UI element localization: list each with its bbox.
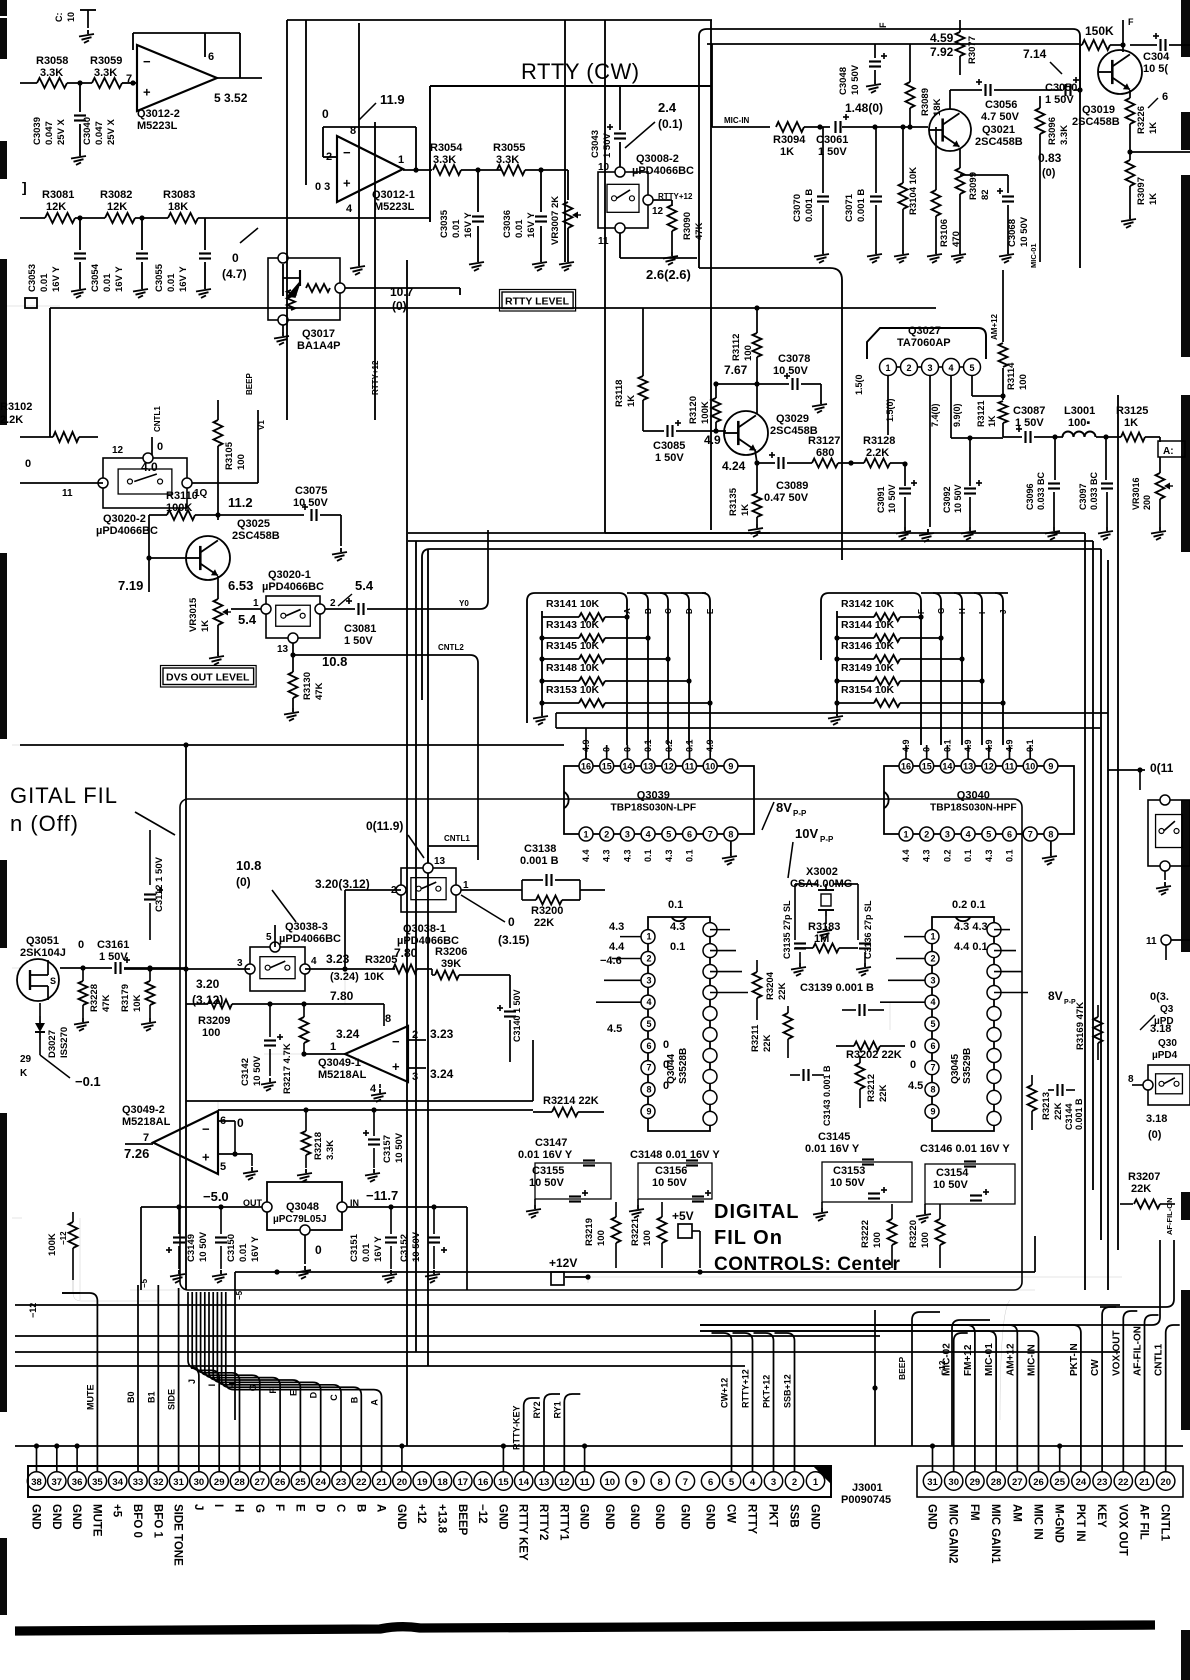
svg-text:0: 0 xyxy=(322,107,329,121)
wire out left xyxy=(141,1206,262,1208)
svg-text:CNTL2: CNTL2 xyxy=(438,643,464,652)
svg-text:Q3051: Q3051 xyxy=(26,935,59,947)
svg-text:Q3020-1: Q3020-1 xyxy=(268,569,311,581)
wire top horizontal y20 xyxy=(287,19,712,21)
connector pin 26 xyxy=(271,1472,289,1490)
svg-text:FM+12: FM+12 xyxy=(963,1344,974,1376)
svg-text:1K: 1K xyxy=(740,504,751,516)
svg-text:100: 100 xyxy=(743,345,754,361)
svg-text:C3061: C3061 xyxy=(816,134,848,146)
svg-text:R3094: R3094 xyxy=(773,134,806,146)
svg-text:0: 0 xyxy=(508,915,515,929)
svg-text:0: 0 xyxy=(25,458,31,470)
svg-text:GND: GND xyxy=(704,1504,716,1530)
svg-text:35: 35 xyxy=(92,1477,103,1488)
svg-text:AF-FIL-ON: AF-FIL-ON xyxy=(1165,1198,1174,1236)
capacitor C3089 0.47 50V xyxy=(777,457,779,469)
svg-text:RTTY KEY: RTTY KEY xyxy=(517,1504,529,1561)
svg-text:R3222: R3222 xyxy=(860,1220,871,1248)
connector pin 1 xyxy=(806,1472,824,1490)
svg-text:GND: GND xyxy=(578,1504,590,1530)
svg-text:16: 16 xyxy=(901,762,911,772)
svg-text:2: 2 xyxy=(930,953,935,963)
svg-text:4.3 4.3: 4.3 4.3 xyxy=(954,921,988,933)
svg-text:R3114: R3114 xyxy=(1006,362,1017,390)
svg-text:R3130: R3130 xyxy=(302,672,313,700)
transistor Q3029 xyxy=(724,411,768,455)
svg-text:16V Y: 16V Y xyxy=(114,266,125,292)
wire 12v to right xyxy=(588,1276,592,1278)
svg-text:C3056: C3056 xyxy=(985,99,1017,111)
svg-text:3: 3 xyxy=(771,1477,776,1488)
ground xyxy=(1053,527,1055,531)
svg-text:7.80: 7.80 xyxy=(330,989,354,1003)
wire q3049-1 pin8 xyxy=(383,1004,385,1026)
feedback wire q3049-2 xyxy=(218,1120,235,1122)
svg-text:+: + xyxy=(343,175,351,190)
svg-text:Y0: Y0 xyxy=(459,599,469,608)
wire net F hook xyxy=(205,1292,280,1472)
ground xyxy=(282,325,284,332)
svg-text:16: 16 xyxy=(478,1477,489,1488)
svg-text:Q3012-1: Q3012-1 xyxy=(372,189,415,201)
svg-text:+5: +5 xyxy=(111,1504,123,1518)
svg-text:100▪: 100▪ xyxy=(1068,417,1090,429)
svg-text:470: 470 xyxy=(951,231,962,247)
svg-text:18K: 18K xyxy=(168,201,188,213)
ground xyxy=(87,30,89,34)
svg-text:S3528B: S3528B xyxy=(678,1048,689,1084)
svg-text:(0): (0) xyxy=(1148,1129,1162,1141)
svg-text:5: 5 xyxy=(986,830,991,840)
wire -12 left vertical xyxy=(79,1218,81,1300)
ground xyxy=(477,258,479,262)
svg-text:8: 8 xyxy=(385,1013,391,1025)
connector pin 19 xyxy=(413,1472,431,1490)
svg-text:150K: 150K xyxy=(1085,24,1114,38)
svg-text:+: + xyxy=(392,1059,400,1074)
wire xyxy=(825,916,827,924)
connector pin 10 xyxy=(601,1472,619,1490)
ground xyxy=(305,1169,307,1173)
svg-text:R3169 47K: R3169 47K xyxy=(1075,1002,1086,1050)
svg-text:SIDE: SIDE xyxy=(167,1389,177,1410)
svg-text:16: 16 xyxy=(581,762,591,772)
svg-text:C: C xyxy=(334,1504,346,1512)
svg-text:0: 0 xyxy=(663,1080,669,1092)
svg-text:47K: 47K xyxy=(314,682,325,700)
wire bus top pair xyxy=(62,1292,80,1294)
svg-text:A: A xyxy=(623,608,632,614)
wire top left entry xyxy=(19,82,21,84)
svg-text:25V X: 25V X xyxy=(56,118,67,145)
wire xyxy=(305,20,307,185)
svg-text:28: 28 xyxy=(991,1477,1002,1488)
wire -5 rail xyxy=(130,1289,1035,1291)
svg-text:0: 0 xyxy=(663,1039,669,1051)
svg-text:7: 7 xyxy=(708,830,713,840)
wire hook RY1 xyxy=(564,1394,580,1472)
connector pin 22 right xyxy=(1114,1472,1132,1490)
svg-text:3.23: 3.23 xyxy=(430,1027,454,1041)
connector pin 28 right xyxy=(987,1472,1005,1490)
svg-text:2: 2 xyxy=(924,830,929,840)
ground left group xyxy=(541,704,543,712)
wire net B hook xyxy=(222,1292,362,1472)
svg-text:DVS OUT LEVEL: DVS OUT LEVEL xyxy=(166,672,250,684)
svg-text:SSB: SSB xyxy=(788,1504,800,1528)
svg-text:5: 5 xyxy=(266,932,272,943)
ground xyxy=(969,527,971,531)
svg-text:0: 0 xyxy=(663,1059,669,1071)
svg-text:(0.1): (0.1) xyxy=(658,117,683,131)
wire left rail xyxy=(541,611,543,704)
wire hook CW+12 xyxy=(712,1333,732,1472)
ground xyxy=(534,1199,536,1205)
svg-text:C3087: C3087 xyxy=(1013,405,1045,417)
svg-text:RY2: RY2 xyxy=(532,1401,542,1418)
capacitor C3085 1 50V xyxy=(666,425,668,437)
connector pin 29 right xyxy=(966,1472,984,1490)
wire hook AM+12 xyxy=(700,1325,1017,1472)
wire hook CNTL1 xyxy=(1166,1325,1180,1472)
ground q3049-1 xyxy=(379,1084,381,1088)
svg-text:VOX OUT: VOX OUT xyxy=(1116,1504,1128,1556)
svg-text:C3154: C3154 xyxy=(936,1167,969,1179)
wire Q3017 to RTTY LEVEL rail xyxy=(345,287,460,289)
svg-text:R3082: R3082 xyxy=(100,189,132,201)
ground xyxy=(821,1202,823,1208)
wire xyxy=(712,126,770,128)
svg-text:20: 20 xyxy=(1160,1477,1171,1488)
svg-text:C3096: C3096 xyxy=(1025,483,1035,510)
scan artifact left edge bars xyxy=(0,0,7,16)
svg-text:PKT+12: PKT+12 xyxy=(762,1375,772,1408)
svg-text:B: B xyxy=(349,1396,359,1403)
svg-text:0.001 B: 0.001 B xyxy=(1074,1098,1084,1130)
svg-text:C3043: C3043 xyxy=(590,130,601,158)
connector pin 23 right xyxy=(1093,1472,1111,1490)
svg-text:1: 1 xyxy=(253,598,259,609)
svg-text:R3214 22K: R3214 22K xyxy=(543,1095,599,1107)
connector pin 24 right xyxy=(1072,1472,1090,1490)
svg-text:−12: −12 xyxy=(59,1231,68,1245)
svg-text:3: 3 xyxy=(625,830,630,840)
svg-text:MIC GAIN1: MIC GAIN1 xyxy=(989,1504,1001,1564)
svg-text:R3219: R3219 xyxy=(584,1218,595,1246)
connector pin 9 xyxy=(626,1472,644,1490)
wire q3049-1 inputs xyxy=(408,1039,426,1041)
svg-text:R3206: R3206 xyxy=(435,946,467,958)
svg-text:R3153 10K: R3153 10K xyxy=(546,684,600,696)
feedback wire op-amp Q3012-2 xyxy=(204,33,206,57)
svg-text:2SC458B: 2SC458B xyxy=(232,530,280,542)
svg-text:AF-FIL-ON: AF-FIL-ON xyxy=(1133,1326,1144,1376)
svg-text:D3027: D3027 xyxy=(47,1030,58,1058)
ground xyxy=(82,1018,84,1022)
feedback wire op-amp Q3012-1 xyxy=(415,127,417,170)
svg-text:0(3.: 0(3. xyxy=(1148,1017,1149,1018)
wire emitter xyxy=(217,576,219,598)
svg-text:4.4 0.1: 4.4 0.1 xyxy=(954,941,988,953)
svg-text:BFO 0: BFO 0 xyxy=(131,1504,143,1538)
svg-text:29: 29 xyxy=(970,1477,981,1488)
svg-text:2: 2 xyxy=(646,953,651,963)
svg-text:R3218: R3218 xyxy=(313,1132,324,1160)
svg-text:Q3038-3: Q3038-3 xyxy=(285,921,328,933)
wire net B xyxy=(640,593,648,745)
svg-text:3: 3 xyxy=(945,830,950,840)
svg-text:14: 14 xyxy=(622,762,632,772)
svg-text:8: 8 xyxy=(930,1085,935,1095)
ground xyxy=(822,250,824,254)
ground xyxy=(304,1266,306,1270)
svg-text:C304: C304 xyxy=(1143,51,1170,63)
svg-text:GND: GND xyxy=(678,1504,690,1530)
svg-text:PKT IN: PKT IN xyxy=(1074,1504,1086,1542)
svg-text:13: 13 xyxy=(434,856,446,867)
connector pin 2 xyxy=(785,1472,803,1490)
nested bus lines top xyxy=(408,532,1085,534)
svg-text:4.5: 4.5 xyxy=(607,1023,622,1035)
connector pin 15 xyxy=(494,1472,512,1490)
svg-text:RTTY: RTTY xyxy=(746,1504,758,1534)
ground xyxy=(433,1270,435,1274)
wire collector xyxy=(756,384,758,414)
svg-text:29: 29 xyxy=(214,1477,225,1488)
connector pin 8 xyxy=(651,1472,669,1490)
svg-text:7.67: 7.67 xyxy=(724,363,748,377)
connector pin 36 xyxy=(68,1472,86,1490)
connector pin 38 xyxy=(27,1472,45,1490)
wire base Q3021 xyxy=(903,126,928,128)
svg-text:47K: 47K xyxy=(101,994,112,1012)
svg-text:C3136 27p SL: C3136 27p SL xyxy=(863,900,873,959)
capacitor C3145 wire xyxy=(889,1002,891,1030)
wire net I hook xyxy=(192,1292,219,1472)
connector pin 5 xyxy=(722,1472,740,1490)
wire MUTE vertical xyxy=(62,1293,97,1472)
svg-text:3.3K: 3.3K xyxy=(94,67,117,79)
svg-text:10 50V: 10 50V xyxy=(830,1177,866,1189)
svg-text:C3081: C3081 xyxy=(344,623,376,635)
wire -5 vertical xyxy=(234,1272,236,1420)
ground xyxy=(340,548,342,552)
ground xyxy=(1164,871,1166,880)
svg-text:CNTL1: CNTL1 xyxy=(1154,1343,1165,1376)
svg-text:VR3016: VR3016 xyxy=(1131,477,1141,510)
svg-text:RY1: RY1 xyxy=(552,1401,562,1418)
svg-text:8: 8 xyxy=(1128,1074,1134,1085)
svg-text:8: 8 xyxy=(646,1085,651,1095)
svg-text:−: − xyxy=(143,54,151,69)
svg-text:C3157: C3157 xyxy=(382,1135,393,1163)
svg-text:9: 9 xyxy=(728,762,733,772)
wire switch1 left xyxy=(345,889,401,891)
svg-text:(3.15): (3.15) xyxy=(498,933,529,947)
svg-text:10.8: 10.8 xyxy=(322,654,347,669)
svg-text:10: 10 xyxy=(705,762,715,772)
wire xyxy=(20,217,45,219)
svg-text:16V Y: 16V Y xyxy=(250,1236,261,1262)
svg-text:P-P: P-P xyxy=(1064,999,1076,1006)
svg-text:R3207: R3207 xyxy=(1128,1171,1160,1183)
connector pin 27 right xyxy=(1008,1472,1026,1490)
svg-text:C3055: C3055 xyxy=(154,263,165,292)
svg-text:TBP18S030N-LPF: TBP18S030N-LPF xyxy=(611,803,697,814)
svg-text:100K: 100K xyxy=(47,1233,58,1256)
svg-text:R3204: R3204 xyxy=(765,971,776,1000)
ground xyxy=(671,252,673,256)
connector pin 11 xyxy=(575,1472,593,1490)
svg-text:8V: 8V xyxy=(1048,989,1063,1003)
vertical wire xyxy=(711,44,713,127)
svg-text:+5V: +5V xyxy=(672,1209,694,1223)
svg-text:AF FIL: AF FIL xyxy=(1138,1504,1150,1540)
svg-text:1.5(0): 1.5(0) xyxy=(885,398,895,422)
svg-text:B0: B0 xyxy=(126,1391,136,1403)
svg-text:C3075: C3075 xyxy=(295,485,327,497)
svg-text:−11.7: −11.7 xyxy=(366,1188,398,1203)
svg-text:10 50V: 10 50V xyxy=(652,1177,688,1189)
svg-text:C3053: C3053 xyxy=(27,264,38,292)
capacitor C3050 wire xyxy=(1064,84,1066,96)
resistor group frame left xyxy=(527,593,627,745)
svg-text:0.01: 0.01 xyxy=(238,1243,249,1262)
wire to op-amp xyxy=(122,82,137,84)
svg-text:10 50V: 10 50V xyxy=(850,64,861,95)
svg-text:MIC-IN: MIC-IN xyxy=(1027,1344,1038,1376)
svg-text:37: 37 xyxy=(52,1477,63,1488)
IC Q3044 S3528B xyxy=(648,917,710,1131)
svg-text:22K: 22K xyxy=(1131,1183,1151,1195)
svg-text:Q3045: Q3045 xyxy=(950,1053,961,1083)
wire pin stub xyxy=(76,1446,78,1472)
svg-text:Q3048: Q3048 xyxy=(286,1201,319,1213)
vertical wire BEEP xyxy=(286,20,288,420)
svg-text:B1: B1 xyxy=(146,1391,156,1403)
svg-text:11.2: 11.2 xyxy=(228,495,253,510)
svg-text:4.3: 4.3 xyxy=(922,849,932,862)
svg-text:3.20(3.12): 3.20(3.12) xyxy=(315,877,370,891)
svg-text:M-GND: M-GND xyxy=(1053,1504,1065,1543)
svg-text:27: 27 xyxy=(255,1477,266,1488)
wire pin4 row xyxy=(950,375,952,438)
svg-text:C3036: C3036 xyxy=(502,210,513,238)
svg-text:−5: −5 xyxy=(140,1278,149,1288)
svg-text:10: 10 xyxy=(66,12,76,22)
wire block left edge xyxy=(605,532,770,534)
wire q3049-1 output xyxy=(304,1053,345,1055)
ground xyxy=(178,1270,180,1274)
capacitor C3049 right xyxy=(1159,39,1161,51)
svg-text:4.3: 4.3 xyxy=(670,921,685,933)
svg-text:4.4: 4.4 xyxy=(609,941,625,953)
connector pin 6 xyxy=(701,1472,719,1490)
svg-text:CNTL1: CNTL1 xyxy=(153,406,162,432)
wire vertical x186 xyxy=(185,745,187,1290)
crystal X3002 xyxy=(818,889,834,891)
svg-text:S: S xyxy=(50,976,56,986)
connector pin 21 xyxy=(372,1472,390,1490)
svg-text:3.3K: 3.3K xyxy=(325,1140,336,1160)
svg-text:F: F xyxy=(917,609,926,614)
svg-text:26: 26 xyxy=(275,1477,286,1488)
svg-text:1: 1 xyxy=(646,932,651,942)
svg-text:M5218AL: M5218AL xyxy=(122,1116,171,1128)
wire left rail entries xyxy=(12,744,22,746)
svg-text:4.3: 4.3 xyxy=(622,849,632,862)
svg-text:0.1: 0.1 xyxy=(668,899,683,911)
svg-text:1K: 1K xyxy=(1148,193,1159,205)
svg-text:0.01: 0.01 xyxy=(102,273,113,292)
svg-text:2.4: 2.4 xyxy=(658,100,677,115)
wire hook PKT-IN xyxy=(700,1325,1081,1472)
svg-text:RTTY-KEY: RTTY-KEY xyxy=(512,1405,522,1450)
svg-text:A: A xyxy=(375,1504,387,1512)
svg-text:R3143 10K: R3143 10K xyxy=(546,619,600,631)
op-amp U Q3049-1 xyxy=(345,1026,408,1082)
svg-text:10 50V: 10 50V xyxy=(198,1231,209,1262)
svg-text:R3120: R3120 xyxy=(688,396,699,424)
connector pin 13 xyxy=(535,1472,553,1490)
svg-text:10 50V: 10 50V xyxy=(1019,216,1030,247)
connector pin 22 xyxy=(352,1472,370,1490)
svg-text:10 50V: 10 50V xyxy=(293,497,329,509)
transistor Q3051 JFET xyxy=(17,959,59,1001)
svg-text:4.5: 4.5 xyxy=(908,1080,923,1092)
svg-text:3: 3 xyxy=(646,975,651,985)
connector pin 30 xyxy=(190,1472,208,1490)
svg-text:R3105: R3105 xyxy=(224,441,235,470)
wire pins to nets right xyxy=(905,745,907,759)
svg-text:E: E xyxy=(293,1504,305,1512)
svg-text:R3099: R3099 xyxy=(968,172,979,200)
svg-text:C3112 1 50V: C3112 1 50V xyxy=(154,856,165,912)
capacitor C3061 + xyxy=(834,121,836,133)
wire pin stub xyxy=(56,1446,58,1472)
svg-text:13: 13 xyxy=(277,644,289,655)
svg-text:3: 3 xyxy=(412,1071,418,1083)
svg-text:C3035: C3035 xyxy=(439,209,450,238)
ground xyxy=(874,80,876,84)
connector pin 31 right xyxy=(923,1472,941,1490)
svg-text:SSB+12: SSB+12 xyxy=(783,1374,793,1408)
svg-text:12: 12 xyxy=(559,1477,570,1488)
svg-text:CW: CW xyxy=(1090,1359,1101,1376)
svg-text:P-P: P-P xyxy=(793,809,807,818)
svg-text:9: 9 xyxy=(1048,762,1053,772)
svg-text:9: 9 xyxy=(930,1106,935,1116)
wire hook RTTY-KEY xyxy=(524,1398,540,1472)
IC Q3045 S3529B xyxy=(932,917,994,1131)
wire mic enclosure xyxy=(699,29,1080,268)
svg-text:6: 6 xyxy=(687,830,692,840)
svg-text:10K: 10K xyxy=(132,994,143,1012)
svg-text:BEEP: BEEP xyxy=(897,1357,907,1380)
ground xyxy=(820,400,822,404)
svg-text:15: 15 xyxy=(922,762,932,772)
svg-text:4: 4 xyxy=(750,1477,756,1488)
svg-text:4: 4 xyxy=(346,203,353,215)
svg-text:E: E xyxy=(706,608,715,614)
svg-text:0: 0 xyxy=(78,939,84,951)
svg-text:82: 82 xyxy=(980,189,991,200)
svg-text:−: − xyxy=(343,145,351,160)
svg-text:1K: 1K xyxy=(780,146,794,158)
wire hook SSB+12 xyxy=(775,1333,795,1472)
svg-text:MIC-01: MIC-01 xyxy=(984,1343,995,1376)
